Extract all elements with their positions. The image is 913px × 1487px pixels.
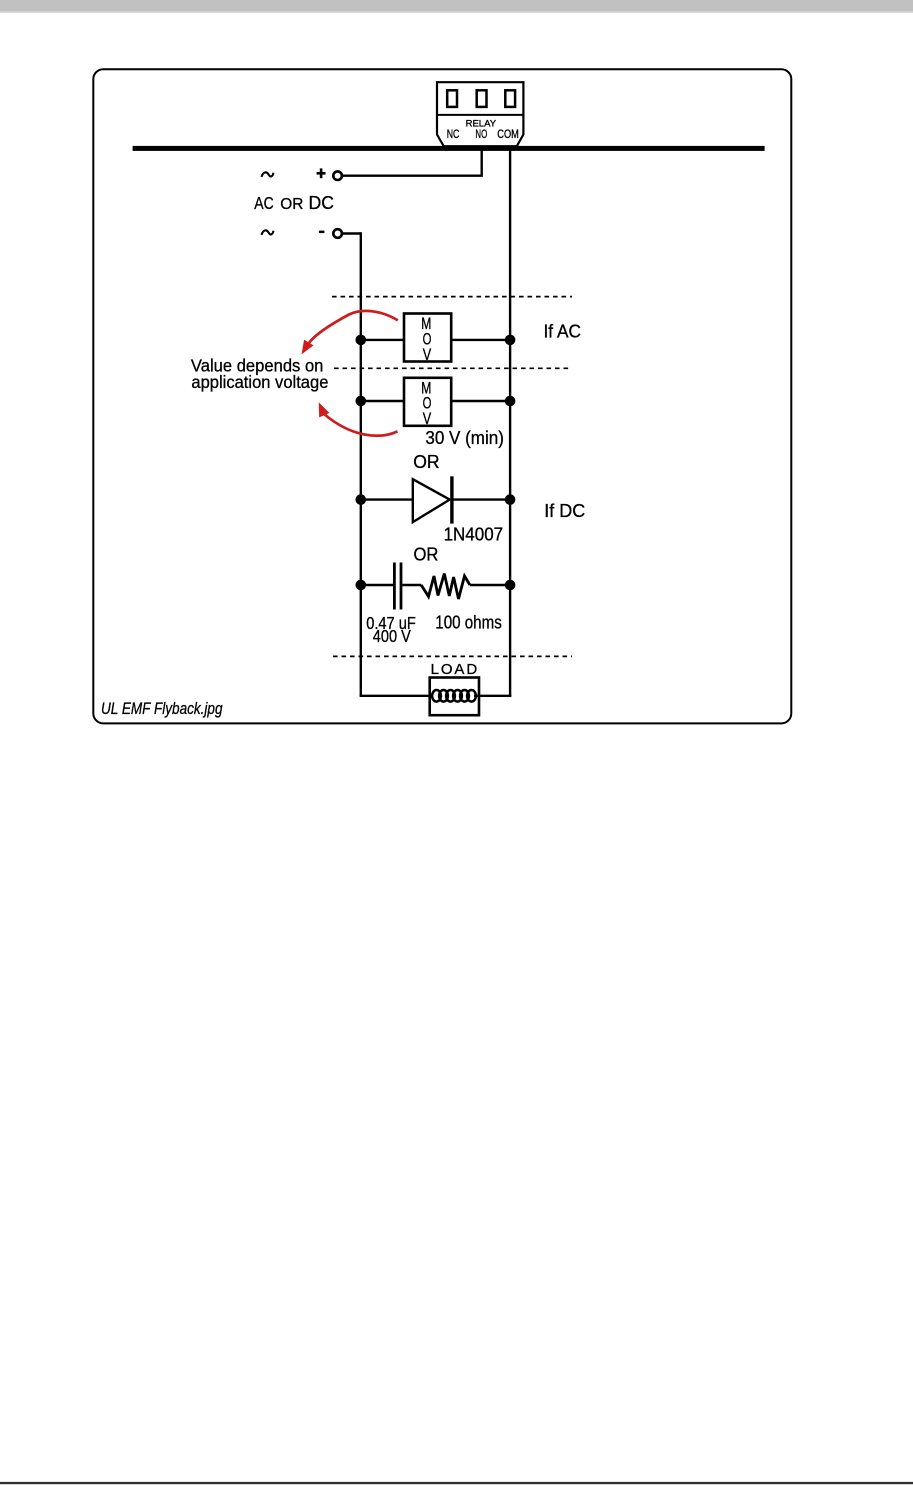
bottom rule line <box>0 1482 913 1484</box>
wire bottom right <box>474 695 511 697</box>
svg-text:If AC: If AC <box>544 321 582 342</box>
junction dot snubber left <box>356 580 367 591</box>
relay block divider <box>437 114 523 116</box>
relay terminal COM pin <box>505 90 515 107</box>
diode D1 cathode bar <box>450 476 453 523</box>
junction dot MOV2 right <box>505 396 516 407</box>
svg-text:OR: OR <box>280 196 303 213</box>
label minus <box>319 231 325 234</box>
relay terminal NC pin <box>447 90 457 107</box>
resistor R1 zigzag <box>421 574 470 600</box>
junction dot diode left <box>356 494 367 505</box>
label + <box>317 168 326 178</box>
dashed separator 2 <box>334 367 572 369</box>
wire minus to left rail <box>342 232 361 234</box>
svg-text:UL EMF Flyback.jpg: UL EMF Flyback.jpg <box>101 699 223 718</box>
wire diode right <box>453 498 510 500</box>
svg-text:DC: DC <box>309 193 335 213</box>
svg-text:1N4007: 1N4007 <box>444 525 504 545</box>
junction dot snubber right <box>505 580 516 591</box>
wire right rail (COM) <box>509 148 511 696</box>
wire bottom left <box>360 695 433 697</box>
varistor MOV2 box <box>404 378 451 426</box>
dashed separator 3 <box>333 655 572 657</box>
junction dot MOV1 right <box>505 335 516 346</box>
dashed separator 1 <box>332 296 572 298</box>
relay terminal block body <box>437 82 523 146</box>
svg-text:100 ohms: 100 ohms <box>435 612 502 632</box>
svg-text:COM: COM <box>497 129 519 141</box>
relay terminal NO pin <box>477 90 487 107</box>
svg-text:400 V: 400 V <box>373 626 411 646</box>
figure border box <box>93 69 791 723</box>
wire snubber left <box>361 584 393 586</box>
diode D1 triangle <box>413 479 450 522</box>
svg-text:AC: AC <box>254 193 273 213</box>
svg-text:OR: OR <box>413 451 439 472</box>
wire cap to resistor <box>402 584 421 586</box>
svg-text:30 V (min): 30 V (min) <box>425 428 504 448</box>
bus thick line <box>133 146 765 151</box>
svg-text:application voltage: application voltage <box>191 372 328 392</box>
junction dot diode right <box>505 494 516 505</box>
junction dot MOV1 left <box>356 335 367 346</box>
wire resistor right <box>470 584 510 586</box>
wire MOV2 right <box>452 400 510 402</box>
wire plus to NO <box>342 148 481 176</box>
terminal circle plus <box>333 171 342 180</box>
svg-text:OR: OR <box>414 543 439 564</box>
tilde AC bottom <box>262 230 274 235</box>
svg-text:V: V <box>423 410 432 428</box>
terminal circle minus <box>333 229 342 238</box>
svg-text:If DC: If DC <box>544 500 585 521</box>
red arrow to MOV2 <box>324 414 397 436</box>
capacitor C1 right plate <box>400 563 403 610</box>
wire diode left <box>361 498 412 500</box>
top gray bar <box>0 0 913 12</box>
load box <box>430 678 479 716</box>
wire MOV1 right <box>452 339 510 341</box>
wire left rail <box>360 232 362 696</box>
red arrow to MOV1 <box>309 311 398 344</box>
junction dot MOV2 left <box>356 396 367 407</box>
svg-text:NC: NC <box>447 129 460 141</box>
svg-text:NO: NO <box>475 129 487 141</box>
varistor MOV1 box <box>404 314 451 362</box>
tilde AC top <box>262 172 274 177</box>
capacitor C1 left plate <box>393 563 396 610</box>
wire MOV1 left <box>361 339 404 341</box>
wire MOV2 left <box>361 400 404 402</box>
svg-text:LOAD: LOAD <box>431 661 478 678</box>
svg-text:V: V <box>423 346 432 364</box>
load inductor coil <box>432 690 476 702</box>
